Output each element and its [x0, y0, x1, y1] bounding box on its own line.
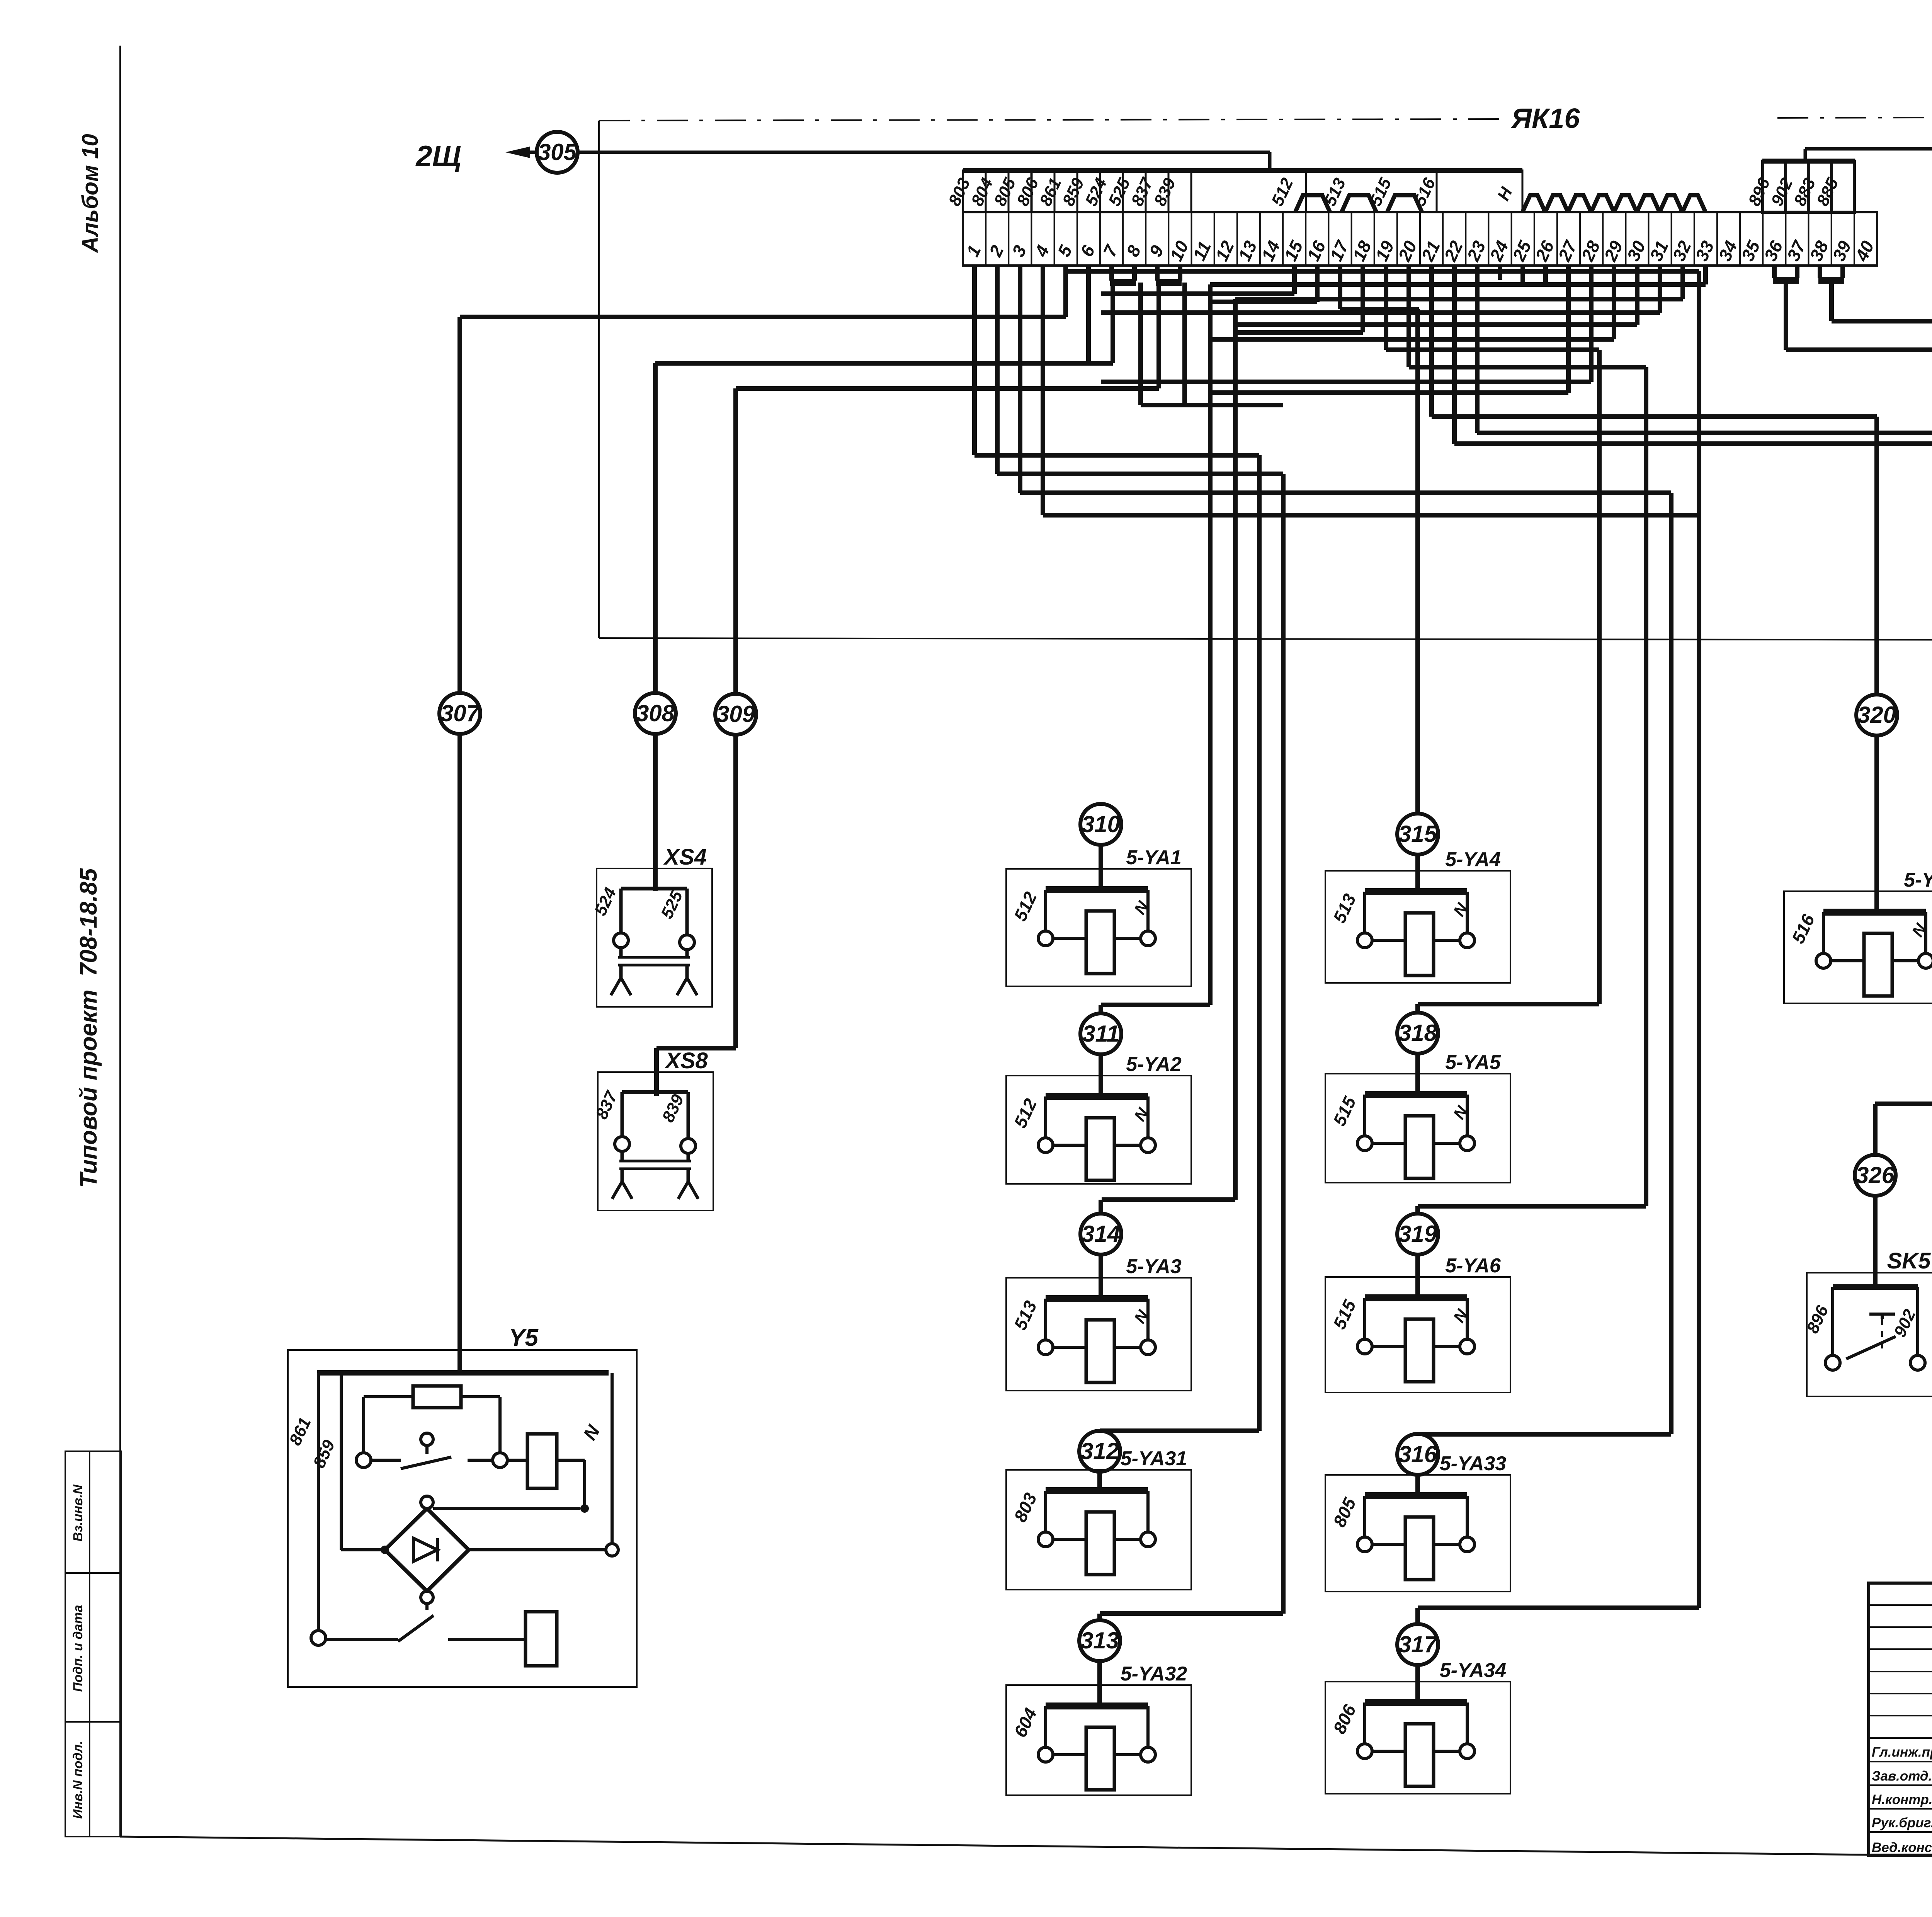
svg-text:314: 314 — [1082, 1221, 1120, 1247]
wire t23 to bottom bus — [1477, 266, 1932, 638]
stub t26 — [1543, 266, 1548, 284]
relay 5-YA5 — [1325, 1051, 1510, 1183]
wire 326 balloon — [1855, 1155, 1896, 1196]
wire 320 into 5-YA7 — [1874, 735, 1879, 914]
wire 317 balloon — [1397, 1624, 1438, 1665]
wire 312 balloon — [1079, 1431, 1120, 1472]
wire 326 into SK5 — [1873, 1195, 1878, 1289]
tag 515 — [1366, 175, 1395, 209]
svg-text:5-YA3: 5-YA3 — [1126, 1255, 1182, 1278]
staircase wire t32 — [1235, 266, 1683, 299]
drawing frame bottom border — [120, 1837, 1932, 1856]
relay 5-YA33 — [1325, 1452, 1510, 1592]
terminal block ЯК16 strip outline and dividers — [963, 212, 1877, 266]
staircase wire t29 — [1210, 266, 1614, 339]
tag 516 — [1410, 175, 1439, 209]
wire 307 vertical — [457, 317, 462, 693]
svg-text:SK5: SK5 — [1887, 1248, 1931, 1273]
jumper hat t16 — [1295, 195, 1330, 212]
svg-text:307: 307 — [440, 700, 480, 726]
tag 513 — [1320, 175, 1349, 209]
relay 5-YA1 — [1006, 846, 1191, 986]
wire 315 riser — [1415, 309, 1420, 894]
svg-text:XS4: XS4 — [663, 844, 707, 870]
title block grid — [1869, 1583, 1932, 1855]
svg-text:320: 320 — [1857, 702, 1896, 728]
wire 319 riser — [1415, 1206, 1420, 1300]
svg-text:Вед.констр: Вед.констр — [1872, 1840, 1932, 1855]
merged drop t36t37 to SK5 feeder — [1786, 280, 1932, 1104]
wire 316 balloon — [1397, 1434, 1438, 1475]
power unit Y5 — [286, 1325, 637, 1687]
relay 5-YA2 — [1006, 1053, 1191, 1184]
merged drop t9t10 left — [1156, 283, 1161, 388]
wire number balloon 305 — [537, 132, 578, 173]
stub t24 — [1498, 266, 1502, 280]
tall tag boxes above terminals 36-39 — [1762, 161, 1855, 212]
wire 314 riser — [1099, 1200, 1103, 1301]
svg-text:312: 312 — [1080, 1438, 1119, 1464]
wide tag box with Н — [1437, 170, 1522, 212]
wire 315 balloon — [1397, 814, 1438, 855]
wire 319 balloon — [1397, 1214, 1438, 1255]
wire t19 to jog 318 — [1386, 266, 1599, 350]
svg-text:313: 313 — [1080, 1628, 1119, 1653]
wire t4 to jog 317 — [1043, 266, 1699, 515]
wire 318 balloon — [1397, 1013, 1438, 1054]
panel boundary bottom edge — [599, 638, 1932, 640]
svg-text:311: 311 — [1082, 1021, 1119, 1047]
wire t5 down — [1063, 266, 1068, 317]
tag bus and tag boxes above terminals 1-10 — [963, 170, 1522, 212]
wire 305 left segment — [529, 151, 537, 154]
U-link terminals 38-39 — [1818, 266, 1844, 280]
wire 307 to Y5 — [457, 734, 462, 1373]
svg-text:315: 315 — [1398, 821, 1438, 847]
jog vertical to 317 — [1418, 271, 1699, 1608]
staircase wire t30 — [1235, 266, 1637, 325]
jog vertical to 313 — [1100, 474, 1283, 1614]
wire number balloon 308 — [635, 693, 676, 734]
side box grid — [65, 1451, 121, 1837]
wire 305 arrowhead — [505, 146, 530, 158]
wire 305 to terminal bus — [577, 152, 1270, 171]
wire tags 803 804 805 806 861 859 524 525 837 839 — [945, 174, 1180, 209]
svg-text:ЯК16: ЯК16 — [1511, 103, 1580, 134]
relay 5-YA3 — [1006, 1255, 1191, 1391]
svg-text:5-YA33: 5-YA33 — [1440, 1452, 1507, 1475]
wire 314 balloon — [1080, 1214, 1121, 1255]
svg-text:5-YA5: 5-YA5 — [1445, 1051, 1501, 1074]
merged drop t7t8 left — [1111, 283, 1115, 363]
wire 320 balloon — [1856, 695, 1897, 735]
wire 311 balloon — [1080, 1013, 1121, 1054]
wire t21 to 320 — [1432, 266, 1877, 417]
side box label 'Подп. и дата' — [71, 1605, 85, 1692]
wire 318 riser — [1415, 1004, 1420, 1097]
panel boundary dash-dot top right segment — [1777, 117, 1932, 118]
relay 5-YA32 — [1006, 1663, 1191, 1795]
jumper hat t20 — [1387, 195, 1422, 212]
svg-text:5-YA32: 5-YA32 — [1121, 1663, 1187, 1685]
svg-text:Инв.N подл.: Инв.N подл. — [71, 1741, 85, 1819]
jog vertical to 314 — [1102, 299, 1235, 1200]
wire number balloon 307 — [439, 693, 480, 734]
staircase wire t33 — [1210, 266, 1706, 284]
svg-text:Рук.бриг.: Рук.бриг. — [1872, 1815, 1932, 1830]
wire t3 to jog 316 — [1020, 266, 1671, 493]
svg-text:Вз.инв.N: Вз.инв.N — [71, 1484, 85, 1542]
svg-text:326: 326 — [1856, 1162, 1895, 1188]
wire tags 896 902 883 885 — [1745, 175, 1842, 209]
wire 313 balloon — [1079, 1620, 1120, 1661]
svg-text:Альбом 10: Альбом 10 — [78, 134, 103, 253]
U-link terminals 9-10 — [1156, 266, 1182, 283]
svg-text:309: 309 — [716, 701, 755, 727]
jog vertical to 319 — [1418, 367, 1646, 1206]
svg-text:2Щ: 2Щ — [415, 140, 461, 173]
side box label 'Инв.N подл.' — [71, 1741, 85, 1819]
merged drop t7t8 right — [1138, 283, 1143, 405]
wire t22 to 325 — [1454, 266, 1932, 444]
merged drop t9t10 right — [1182, 283, 1187, 405]
wide tag box with 512 — [1191, 170, 1306, 212]
svg-text:5-YA31: 5-YA31 — [1121, 1447, 1187, 1470]
side caption 'Альбом 10' — [78, 134, 103, 253]
wire t2 to jog 313 — [997, 266, 1283, 474]
panel boundary dash-dot top left segment — [599, 119, 1505, 121]
wire 309 vertical — [733, 388, 738, 694]
svg-text:5-YA7: 5-YA7 — [1904, 869, 1932, 891]
wire number balloon 309 — [715, 694, 756, 735]
svg-text:317: 317 — [1398, 1631, 1438, 1657]
connector XS4 — [591, 844, 712, 1007]
wire 310 balloon — [1080, 804, 1121, 845]
relay 5-YA7 — [1784, 869, 1932, 1003]
wire 308 vertical — [653, 363, 658, 693]
U-link terminals 7-8 — [1110, 266, 1136, 283]
wire 308 to XS4 — [653, 734, 658, 891]
svg-text:308: 308 — [636, 700, 675, 726]
svg-text:Типовой проект 708-18.85: Типовой проект 708-18.85 — [75, 868, 102, 1188]
wire 310 into 5-YA1 — [1099, 844, 1103, 892]
staircase wire t31 — [1101, 266, 1660, 313]
wire t16 to jog 311 — [1210, 266, 1317, 302]
wire t17 to 315 riser — [1340, 266, 1419, 309]
thermal switch SK5 — [1803, 1248, 1932, 1396]
collector wire h1048 — [1141, 403, 1283, 407]
wire 311 riser — [1099, 1005, 1103, 1099]
jog vertical to 318 — [1418, 350, 1599, 1004]
jog vertical to 312 — [1100, 455, 1259, 1431]
wire 309 horizontal — [736, 386, 1159, 391]
svg-text:319: 319 — [1398, 1221, 1437, 1247]
svg-text:Гл.инж.пр: Гл.инж.пр — [1872, 1745, 1932, 1760]
jumper hat t18 — [1342, 195, 1376, 212]
feeder label 2Щ — [415, 140, 461, 173]
U-link terminals 36-37 — [1773, 266, 1799, 280]
svg-text:Подп. и дата: Подп. и дата — [71, 1605, 85, 1692]
jog vertical to 316 — [1418, 493, 1671, 1434]
svg-text:5-YA6: 5-YA6 — [1445, 1255, 1501, 1277]
jog vertical to 311 — [1101, 284, 1210, 1005]
svg-text:Зав.отд.: Зав.отд. — [1872, 1769, 1932, 1784]
svg-text:316: 316 — [1398, 1441, 1437, 1467]
svg-text:318: 318 — [1398, 1020, 1437, 1046]
title block signatures — [1872, 1740, 1932, 1856]
wire 308 horizontal — [655, 361, 1113, 366]
svg-text:5-YA1: 5-YA1 — [1126, 846, 1182, 869]
wire t5 long top run — [1066, 269, 1699, 274]
terminal numbers 1-40 — [963, 237, 1878, 264]
jumper hats terminals 25-33 — [1522, 195, 1706, 212]
svg-text:5-YA4: 5-YA4 — [1445, 848, 1501, 871]
svg-text:5-YA34: 5-YA34 — [1440, 1659, 1507, 1682]
wire 312 riser — [1097, 1431, 1102, 1492]
wire 313 riser — [1097, 1614, 1102, 1708]
wire t18 to jog 314 — [1235, 266, 1363, 332]
panel boundary left edge — [598, 121, 600, 638]
stub t25 — [1520, 266, 1525, 283]
relay 5-YA34 — [1325, 1659, 1510, 1794]
wire t1 to jog 312 — [975, 266, 1259, 455]
merged drop t38t39 to BK5 feeder — [1832, 280, 1932, 1107]
wire 326 jog — [1875, 1104, 1932, 1155]
wire 307 horizontal — [460, 315, 1066, 319]
wire 317 riser — [1415, 1608, 1420, 1705]
wire 309 to XS8 — [656, 734, 736, 1096]
wire t6 drop — [1086, 266, 1091, 363]
side caption 'Типовой проект 708-18.85' — [75, 868, 102, 1188]
svg-text:310: 310 — [1082, 811, 1120, 837]
relay 5-YA31 — [1006, 1447, 1191, 1590]
svg-text:Н.контр.: Н.контр. — [1872, 1792, 1932, 1807]
staircase wire t27 — [1210, 266, 1568, 393]
panel label ЯК16 — [1511, 103, 1580, 134]
staircase wire t28 — [1101, 266, 1591, 382]
relay 5-YA4 — [1325, 848, 1510, 983]
svg-text:Y5: Y5 — [509, 1325, 539, 1351]
svg-text:XS8: XS8 — [664, 1048, 708, 1073]
wire 320 vertical — [1874, 417, 1879, 695]
side box label 'Вз.инв.N' — [71, 1484, 85, 1542]
wire 306 riser from tag bus — [1804, 149, 1807, 163]
drawing frame left border — [119, 46, 121, 1837]
wire t20 to jog 319 — [1409, 266, 1646, 367]
wire 306 horizontal — [1805, 147, 1932, 151]
svg-text:305: 305 — [538, 139, 577, 165]
connector XS8 — [592, 1048, 713, 1210]
relay 5-YA6 — [1325, 1255, 1510, 1393]
svg-text:5-YA2: 5-YA2 — [1126, 1053, 1182, 1076]
wire t15 to 310 riser — [1101, 266, 1294, 294]
wire 316 riser — [1415, 1434, 1420, 1498]
